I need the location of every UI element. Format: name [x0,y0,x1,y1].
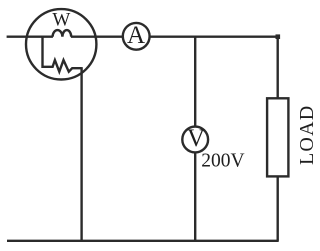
svg-text:LOAD: LOAD [296,105,318,165]
wattmeter W1 body circle [26,9,96,79]
wire: voltage coil down to bottom bus [80,67,82,241]
wire: voltmeter branch upper [194,37,196,128]
wire: load to bottom bus [277,176,279,241]
junction dot at top-right corner [276,34,281,39]
load resistor box [267,98,288,176]
svg-text:A: A [127,22,145,49]
svg-text:200V: 200V [201,151,244,172]
voltmeter V1 body circle [182,127,208,153]
wire: current coil to ammeter [71,36,123,38]
svg-text:W: W [52,10,70,31]
wire: voltmeter to bottom bus [194,152,196,241]
wattmeter W1 voltage coil [43,36,82,72]
ammeter A1 body circle [123,23,150,50]
wire: bottom bus [7,240,279,242]
wattmeter W1 current coil [53,30,72,37]
wire: ammeter to load branch corner [149,36,279,38]
svg-text:V: V [187,125,205,152]
wire: source top lead into wattmeter [7,36,53,38]
wire: right branch down to load [277,37,279,99]
